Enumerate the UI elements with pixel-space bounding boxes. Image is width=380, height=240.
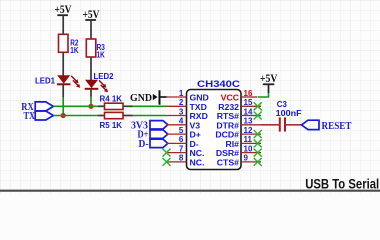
svg-text:10: 10 — [244, 144, 253, 153]
power flag +5V (right) — [260, 73, 278, 93]
svg-text:15: 15 — [244, 98, 253, 107]
svg-text:5: 5 — [179, 126, 184, 135]
no-connect X pin 8 — [163, 158, 171, 166]
port D- — [139, 138, 168, 150]
svg-text:3: 3 — [179, 107, 184, 116]
junction at LED1/TX — [61, 113, 66, 118]
resistor R3 — [86, 39, 96, 57]
pin 12 DCD# stub — [241, 133, 261, 135]
no-connect X pin 14 — [254, 112, 262, 120]
svg-text:D-: D- — [139, 138, 149, 150]
svg-text:6: 6 — [179, 135, 184, 144]
pin 15 R232 stub — [241, 105, 261, 107]
svg-text:12: 12 — [244, 126, 253, 135]
svg-text:NC.: NC. — [190, 157, 205, 167]
svg-text:LED1: LED1 — [35, 76, 55, 86]
svg-text:11: 11 — [244, 135, 253, 144]
wire C3 to RESET — [286, 124, 302, 126]
svg-text:TX: TX — [24, 110, 36, 122]
svg-text:GND: GND — [130, 92, 152, 104]
pin 2 TXD stub — [167, 105, 187, 107]
pin 10 DSR# stub — [241, 152, 261, 154]
pin 1 GND stub — [167, 96, 187, 98]
junction at LED2/RX — [88, 104, 93, 109]
svg-text:R4 1K: R4 1K — [100, 94, 123, 104]
svg-text:LED2: LED2 — [94, 71, 114, 81]
pin 16 VCC stub — [241, 96, 257, 98]
wire TX line — [53, 115, 97, 117]
svg-text:1K: 1K — [97, 49, 106, 59]
wire R5 to pin 3 — [133, 115, 167, 117]
wire from +5V to R2 — [62, 15, 64, 34]
resistor R2 — [59, 34, 69, 52]
sheet border bottom — [0, 190, 380, 192]
pin 8 NC stub — [167, 161, 187, 163]
power flag +5V (column 1) — [55, 4, 73, 16]
svg-text:14: 14 — [244, 107, 253, 116]
svg-text:CTS#: CTS# — [217, 157, 239, 167]
resistor R4 — [98, 103, 133, 109]
pin 11 RI# stub — [241, 142, 261, 144]
wire DTR# to C3 — [261, 124, 279, 126]
net flag GND — [130, 90, 167, 104]
svg-text:4: 4 — [179, 117, 184, 126]
svg-text:R5 1K: R5 1K — [100, 120, 123, 130]
no-connect X pin 12 — [254, 130, 262, 138]
pin 13 DTR# stub — [241, 124, 261, 126]
svg-text:1: 1 — [179, 89, 184, 98]
wire from +5V to R3 — [90, 20, 92, 39]
svg-text:+5V: +5V — [260, 73, 278, 85]
pin 14 RTS# stub — [241, 115, 261, 117]
pin 3 RXD stub — [167, 115, 187, 117]
svg-text:7: 7 — [179, 144, 184, 153]
pin 4 V3 stub — [167, 124, 187, 126]
port RESET — [302, 120, 353, 132]
capacitor C3 — [280, 117, 285, 131]
svg-text:2: 2 — [179, 98, 184, 107]
svg-text:8: 8 — [179, 154, 184, 163]
resistor R5 — [98, 112, 133, 118]
R2 value label — [70, 37, 79, 55]
wire R2 to LED1 — [62, 52, 64, 75]
wire (green) LED1 down to TX line — [62, 98, 64, 116]
IC U1 CH340C body — [187, 90, 242, 170]
no-connect X pin 15 — [254, 102, 262, 110]
pin 9 CTS# stub — [241, 161, 261, 163]
svg-text:CH340C: CH340C — [197, 79, 240, 90]
svg-text:100nF: 100nF — [276, 108, 302, 118]
R3 value label — [97, 42, 106, 59]
LED LED2 — [85, 80, 108, 92]
wire R4 to pin 2 — [133, 105, 167, 107]
svg-text:1K: 1K — [70, 45, 79, 55]
port 3V3 — [131, 119, 168, 131]
power flag +5V (column 2) — [83, 9, 101, 21]
svg-text:16: 16 — [244, 89, 253, 98]
svg-text:USB To Serial: USB To Serial — [305, 176, 379, 191]
pin 6 D- stub — [167, 142, 187, 144]
no-connect X pin 11 — [254, 139, 262, 147]
svg-text:13: 13 — [244, 117, 253, 126]
no-connect X pin 9 — [254, 158, 262, 166]
no-connect X pin 7 — [163, 149, 171, 157]
wire LED2 to RX net — [90, 89, 92, 97]
left pin names — [190, 93, 209, 168]
wire LED1 to TX net — [62, 84, 64, 97]
port D+ — [138, 129, 168, 141]
wire VCC to +5V — [258, 93, 269, 97]
port RX — [21, 101, 53, 113]
wire (green) LED2 down to RX line — [90, 97, 92, 107]
LED LED1 — [57, 75, 80, 87]
wire R3 to LED2 — [90, 57, 92, 80]
pin 7 NC stub — [167, 152, 187, 154]
svg-text:RESET: RESET — [322, 120, 353, 132]
wire RX line — [53, 105, 97, 107]
no-connect X pin 10 — [254, 149, 262, 157]
svg-text:9: 9 — [244, 154, 249, 163]
C3 value label — [276, 99, 302, 118]
pin 5 D+ stub — [167, 133, 187, 135]
right pin names — [215, 93, 239, 168]
port TX — [24, 110, 54, 122]
